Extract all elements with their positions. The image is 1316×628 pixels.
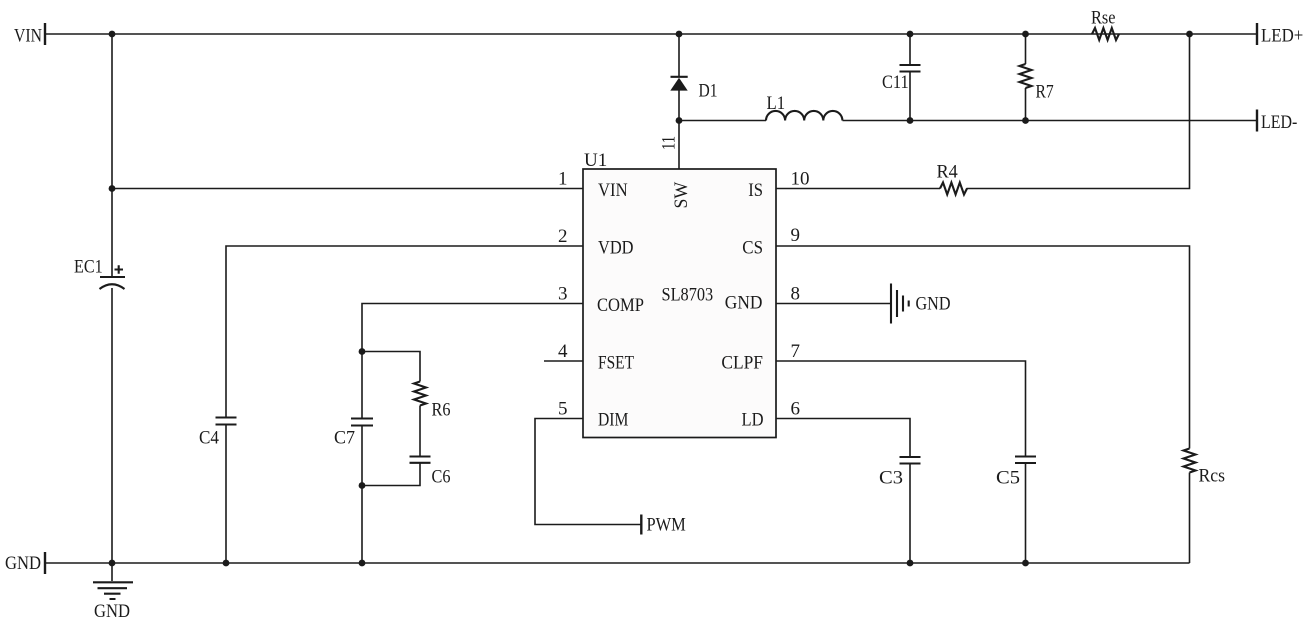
capacitor C11 [882,34,921,121]
node LED- / D1 anode / SW [676,117,683,124]
svg-text:8: 8 [791,284,801,305]
node bottom rail / EC1 column [109,560,116,567]
terminal LED- [1257,110,1297,134]
svg-text:SW: SW [671,182,692,209]
svg-text:LED+: LED+ [1261,26,1303,47]
diode D1 [670,34,717,121]
capacitor C7 [334,419,373,564]
resistor Rse [1091,8,1119,41]
svg-text:VIN: VIN [14,26,42,47]
svg-text:GND: GND [725,293,763,314]
wire R6 to C6 [419,406,421,457]
node C7 bottom branch [359,482,366,489]
node top rail / EC1 column [109,31,116,38]
svg-text:IS: IS [748,180,763,201]
resistor R7 [1020,34,1054,121]
ground symbol (pin 8) [891,284,951,324]
svg-text:1: 1 [558,169,568,190]
svg-text:9: 9 [791,225,801,246]
node LED- / C11 [907,117,914,124]
svg-text:CS: CS [742,238,763,259]
wire pin5 DIM to PWM [535,419,641,525]
wire bottom rail [45,562,1190,564]
resistor R6 [414,382,451,421]
wire pin9 CS to Rcs column [776,246,1190,449]
svg-text:D1: D1 [699,81,718,102]
node bottom rail / C7 [359,560,366,567]
node bottom rail / C5 [1022,560,1029,567]
svg-text:4: 4 [558,341,568,362]
svg-text:CLPF: CLPF [721,353,763,374]
svg-text:C11: C11 [882,72,909,93]
node C7 top branch [359,348,366,355]
svg-text:GND: GND [5,553,41,574]
resistor R4 [937,162,968,195]
svg-text:10: 10 [791,169,810,190]
wire LED- rail [679,120,1257,122]
svg-text:R4: R4 [937,162,959,183]
op-amp U1 (SL8703 IC body) [583,150,776,438]
wire pin6 LD to C3 [776,419,910,458]
svg-text:U1: U1 [584,150,607,171]
wire pin1 VIN to input column [112,188,583,190]
node LED- / R7 [1022,117,1029,124]
svg-text:R6: R6 [432,400,451,421]
svg-text:6: 6 [791,399,801,420]
node top rail / C11 [907,31,914,38]
svg-text:GND: GND [94,601,130,622]
svg-text:5: 5 [558,399,568,420]
svg-text:GND: GND [916,294,951,315]
capacitor EC1 (electrolytic) [74,257,125,290]
svg-text:C7: C7 [334,428,355,449]
svg-text:SL8703: SL8703 [662,285,714,306]
svg-text:Rcs: Rcs [1199,466,1226,487]
svg-text:3: 3 [558,284,568,305]
terminal PWM [641,515,686,536]
ground symbol (bottom) [93,563,133,622]
svg-text:PWM: PWM [647,515,686,536]
wire pin4 FSET stub [544,360,583,362]
wire pin3 COMP to C7 column [362,304,583,419]
node top rail / IS sense [1186,31,1193,38]
svg-text:DIM: DIM [598,410,628,431]
node top rail / D1 [676,31,683,38]
wire pin2 VDD to C4 [226,246,583,418]
wire pin7 CLPF to C5 [776,361,1026,457]
svg-text:LD: LD [742,410,764,431]
svg-text:EC1: EC1 [74,257,103,278]
terminal GND (left) [5,552,45,574]
svg-text:2: 2 [558,226,568,247]
svg-text:C5: C5 [996,468,1020,489]
capacitor C4 [199,418,237,564]
node VIN column / pin1 [109,185,116,192]
svg-text:C6: C6 [432,467,451,488]
wire R6/C6 branch bottom [362,463,420,486]
resistor Rcs [1184,449,1226,487]
capacitor C5 [996,457,1036,564]
terminal VIN [14,23,45,47]
node bottom rail / C4 [223,560,230,567]
wire top rail VIN to LED+ [45,33,1257,35]
wire SW pin 11 [678,121,680,170]
svg-text:11: 11 [659,136,680,150]
svg-text:7: 7 [791,341,801,362]
svg-text:LED-: LED- [1261,112,1297,133]
capacitor C3 [879,457,921,563]
svg-text:C3: C3 [879,468,903,489]
terminal LED+ [1257,23,1303,47]
wire R6/C6 branch top [362,352,420,382]
svg-text:VDD: VDD [598,238,634,259]
node bottom rail / C3 [907,560,914,567]
svg-text:COMP: COMP [597,295,644,316]
wire VIN column [111,34,113,563]
wire pin8 GND [776,303,891,305]
svg-text:VIN: VIN [598,180,628,201]
node top rail / R7 [1022,31,1029,38]
inductor L1 [766,93,842,121]
svg-text:FSET: FSET [598,353,634,374]
wire Rcs to bottom rail [1189,473,1191,564]
svg-text:C4: C4 [199,428,219,449]
svg-text:R7: R7 [1036,82,1054,103]
capacitor C6 [410,457,451,488]
wire pin10 IS through R4 [776,34,1190,189]
